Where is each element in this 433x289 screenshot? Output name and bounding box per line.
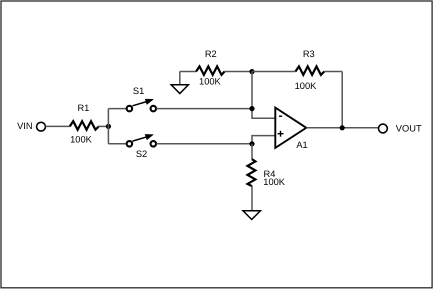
svg-text:VOUT: VOUT xyxy=(396,124,422,134)
svg-text:R3: R3 xyxy=(303,49,315,59)
wire feedback node to R3 xyxy=(252,71,296,73)
switch S2 xyxy=(127,134,156,146)
resistor R2 xyxy=(196,66,225,75)
wire input node vertical xyxy=(107,109,109,144)
wire S1 to inverting node xyxy=(157,108,253,110)
ground G1 wire xyxy=(179,72,181,85)
svg-text:R1: R1 xyxy=(77,103,89,113)
wire feedback node to inverting input xyxy=(252,72,275,119)
wire R4 bottom to ground xyxy=(251,186,253,211)
junction non-inverting node xyxy=(249,141,254,146)
switch S1 xyxy=(127,99,156,111)
terminal VOUT xyxy=(379,124,388,133)
wire G1 to R2 xyxy=(180,71,196,73)
wire non-inverting node to plus input xyxy=(252,136,275,144)
wire A1 output to VOUT xyxy=(306,127,378,129)
A1 plus pin mark xyxy=(278,131,284,137)
ground G1 xyxy=(171,85,188,94)
A1 minus pin mark xyxy=(279,115,282,117)
svg-text:S1: S1 xyxy=(133,86,144,96)
wire R3 to output vertical xyxy=(324,71,342,73)
wire VIN terminal to R1 xyxy=(46,125,70,127)
junction output node xyxy=(340,125,345,130)
wire S2 to non-inverting node xyxy=(157,143,253,145)
wire to S1 left xyxy=(108,108,126,110)
resistor R1 xyxy=(70,121,99,130)
junction inverting node xyxy=(249,106,254,111)
wire feedback vertical right xyxy=(341,72,343,128)
op-amp A1 xyxy=(275,108,306,148)
svg-text:S2: S2 xyxy=(136,149,147,159)
wire R4 top xyxy=(251,144,253,160)
ground G2 xyxy=(243,211,260,220)
svg-text:100K: 100K xyxy=(263,177,286,187)
svg-text:100K: 100K xyxy=(199,76,222,86)
wire R2 to feedback junction xyxy=(225,71,255,73)
svg-text:100K: 100K xyxy=(295,81,318,91)
junction input node xyxy=(106,124,111,129)
resistor R3 xyxy=(296,66,325,75)
svg-text:R2: R2 xyxy=(205,49,217,59)
svg-text:A1: A1 xyxy=(296,140,307,150)
terminal VIN xyxy=(37,122,46,131)
svg-text:VIN: VIN xyxy=(17,121,33,131)
svg-text:100K: 100K xyxy=(70,134,93,144)
resistor R4 xyxy=(248,159,256,186)
wire to S2 left xyxy=(108,143,126,145)
wire R1 to junction xyxy=(98,125,110,127)
junction feedback node xyxy=(249,69,254,74)
